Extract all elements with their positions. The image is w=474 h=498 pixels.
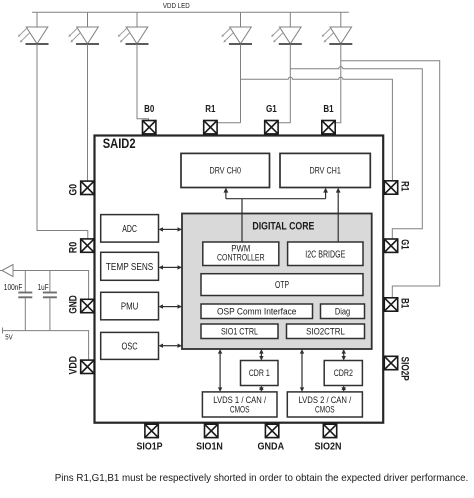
LED D5: [271, 12, 302, 44]
svg-text:SIO2CTRL: SIO2CTRL: [306, 326, 345, 336]
svg-text:VDD: VDD: [67, 356, 79, 375]
pin SIO2P (right): [384, 356, 397, 369]
block SIO2CTRL: [287, 324, 365, 339]
block Diag: [321, 304, 365, 319]
LED D6: [322, 12, 353, 44]
wire I2C BRIDGE to DRV CH1: [337, 192, 339, 242]
svg-text:CONTROLLER: CONTROLLER: [217, 253, 265, 263]
arrowhead into DRV CH0: [224, 188, 229, 193]
arrow ADC to core: [163, 228, 179, 230]
block CDR2: [324, 361, 362, 386]
IC U1 SAID2 outline: [95, 136, 384, 423]
block I2C BRIDGE: [288, 242, 363, 266]
net VDD LED rail: [32, 11, 349, 13]
block DIGITAL CORE: [182, 214, 372, 350]
pin GNDA (bottom): [265, 424, 278, 437]
block OSP Comm Interface: [201, 304, 313, 319]
pin G1 (right): [384, 239, 397, 252]
block SIO1 CTRL: [201, 324, 278, 339]
wire LED D1 cathode to pin R0: [37, 44, 88, 239]
wire LED D6 cathode down to pin B1 top: [335, 44, 341, 123]
svg-text:LVDS 1 / CAN /: LVDS 1 / CAN /: [213, 395, 266, 405]
svg-text:LVDS 2 / CAN /: LVDS 2 / CAN /: [298, 395, 351, 405]
wire net G1 to right side pin G1 (hop over crossing wire): [290, 67, 422, 240]
svg-text:I2C BRIDGE: I2C BRIDGE: [305, 249, 345, 260]
arrow PMU to core: [163, 306, 179, 308]
arrow CDR2 to LVDS 2: [343, 388, 345, 390]
wire LED D5 cathode down to pin G1 top: [278, 44, 290, 123]
svg-text:SIO2N: SIO2N: [315, 441, 342, 452]
svg-text:B0: B0: [144, 104, 155, 115]
svg-text:B1: B1: [398, 298, 410, 308]
arrow core to CDR 1: [260, 353, 262, 356]
svg-text:TEMP SENS: TEMP SENS: [106, 262, 154, 273]
capacitor C1 100nF: [18, 271, 32, 331]
pin G0 (left): [81, 181, 94, 194]
svg-text:SAID2: SAID2: [103, 136, 136, 151]
wire GND net to pin GND: [0, 271, 89, 300]
LED D3: [118, 12, 149, 44]
arrow OSC to core: [163, 345, 179, 347]
pin SIO1N (bottom): [205, 424, 218, 437]
wire net B1 to right side pin B1: [341, 61, 440, 298]
svg-text:CMOS: CMOS: [315, 404, 335, 414]
ground arrow (off-page GND): [2, 265, 13, 277]
svg-text:DIGITAL CORE: DIGITAL CORE: [252, 220, 314, 232]
block LVDS 1 / CAN / CMOS: [202, 392, 277, 417]
svg-text:PMU: PMU: [121, 302, 139, 313]
block OSC: [101, 332, 159, 359]
pin B0 (top): [143, 121, 156, 134]
block OTP: [201, 274, 363, 296]
arrowhead into DRV CH1 from I2C: [336, 188, 341, 193]
svg-text:CDR2: CDR2: [334, 368, 353, 378]
svg-text:GND: GND: [67, 295, 79, 314]
svg-text:OTP: OTP: [275, 280, 289, 291]
svg-text:G0: G0: [67, 184, 79, 196]
svg-text:G1: G1: [266, 104, 277, 115]
pin SIO2N (bottom): [323, 424, 336, 437]
pin SIO1P (bottom): [145, 424, 158, 437]
LED D4: [221, 12, 252, 44]
arrow TEMP SENS to core: [163, 266, 179, 268]
svg-text:1uF: 1uF: [38, 282, 49, 292]
arrow CDR 1 to LVDS 1: [260, 388, 262, 390]
svg-text:CMOS: CMOS: [230, 404, 250, 414]
block CDR 1: [241, 361, 279, 386]
pin B1 (top): [322, 121, 335, 134]
block LVDS 2 / CAN / CMOS: [287, 392, 362, 417]
block TEMP SENS: [101, 252, 159, 280]
svg-text:R1: R1: [205, 104, 216, 115]
block ADC: [101, 215, 159, 243]
svg-text:ADC: ADC: [122, 224, 137, 235]
arrow core to LVDS 1: [219, 353, 221, 388]
wire junction to pin R1 top: [217, 122, 240, 124]
pin R1 (right): [384, 181, 397, 194]
svg-text:OSC: OSC: [122, 341, 138, 352]
svg-text:R1: R1: [398, 181, 410, 191]
svg-text:5V: 5V: [5, 333, 13, 342]
block DRV CH0: [181, 153, 270, 187]
block PWM CONTROLLER: [203, 242, 279, 266]
svg-text:VDD LED: VDD LED: [163, 1, 190, 10]
pin VDD (left): [81, 360, 94, 373]
pin GND (left): [81, 299, 94, 312]
wire LED D4 cathode down to junction: [240, 44, 242, 123]
wire LED D2 cathode to pin G0: [87, 44, 89, 181]
arrow core to CDR2: [343, 353, 345, 356]
svg-text:SIO2P: SIO2P: [398, 357, 410, 381]
svg-text:B1: B1: [323, 104, 334, 115]
svg-text:OSP Comm Interface: OSP Comm Interface: [217, 306, 296, 316]
svg-text:Pins R1,G1,B1 must be respecti: Pins R1,G1,B1 must be respectively short…: [55, 473, 469, 484]
svg-text:DRV CH0: DRV CH0: [210, 166, 241, 176]
svg-text:SIO1P: SIO1P: [137, 441, 163, 452]
pin B1 (right): [384, 298, 397, 311]
svg-text:DRV CH1: DRV CH1: [309, 166, 340, 176]
svg-text:CDR 1: CDR 1: [249, 368, 270, 378]
net 5V rail: [3, 328, 89, 361]
svg-text:Diag: Diag: [335, 306, 350, 316]
svg-text:SIO1N: SIO1N: [196, 441, 223, 452]
wire net R1 to right side pin R1 (hops over crossing wires): [241, 77, 393, 181]
pin R0 (left): [81, 239, 94, 252]
pin G1 (top): [265, 121, 278, 134]
block PMU: [101, 292, 159, 320]
svg-text:G1: G1: [398, 239, 410, 249]
LED D2: [68, 12, 99, 44]
pin R1 (top): [204, 121, 217, 134]
svg-text:100nF: 100nF: [4, 282, 23, 292]
svg-text:GNDA: GNDA: [258, 441, 285, 452]
svg-text:SIO1 CTRL: SIO1 CTRL: [221, 326, 258, 336]
LED D1: [18, 12, 49, 44]
capacitor C2 1uF: [43, 271, 57, 331]
block DRV CH1: [280, 153, 370, 187]
wire PWM CONTROLLER to DRV channels: [226, 192, 326, 242]
arrowhead into DRV CH1 from PWM: [323, 188, 328, 193]
svg-text:R0: R0: [67, 242, 79, 254]
wire LED D3 cathode to pin B0: [137, 44, 149, 121]
arrow core to LVDS 2: [301, 353, 303, 388]
